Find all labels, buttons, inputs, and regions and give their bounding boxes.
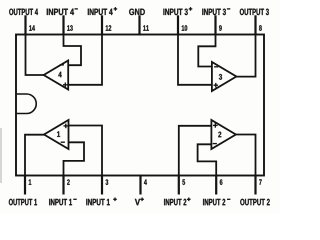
- pin 8 lead: [254, 15, 256, 35]
- op-amp U3 label 3: [219, 74, 222, 80]
- pin 7 number: [259, 179, 262, 184]
- pin 4 lead: [139, 175, 141, 195]
- wire pin6 to U2 inverting input: [198, 144, 217, 175]
- pin 13 lead: [62, 15, 64, 35]
- pin 1 number: [29, 179, 32, 184]
- pin 11 lead: [138, 15, 140, 35]
- wire pin10 to U3 non-inverting input: [178, 35, 212, 85]
- pin 5 number: [182, 179, 185, 184]
- pin 10 lead: [177, 15, 179, 35]
- pin 10 number: [182, 25, 188, 31]
- label INPUT 2 plus (pin 5): [164, 199, 186, 206]
- pin 4 number: [144, 179, 147, 184]
- label OUTPUT 4 (pin 14): [9, 9, 38, 16]
- op-amp U2 minus sign: [213, 143, 217, 145]
- wire pin5 to U2 non-inverting input: [179, 126, 212, 176]
- op-amp U4 label 4: [58, 72, 61, 78]
- pin 6 number: [220, 179, 223, 185]
- label INPUT 4 plus (pin 12): [88, 9, 113, 15]
- pin 9 number: [219, 25, 222, 31]
- op-amp U1 label 1: [57, 131, 60, 137]
- pin 12 lead: [101, 15, 103, 35]
- op-amp U4 (amplifier 4): [44, 61, 68, 90]
- pin 11 number: [143, 25, 149, 30]
- label GND (pin 11): [129, 9, 145, 16]
- op-amp U1 minus sign: [61, 141, 65, 143]
- op-amp U4 minus sign: [60, 64, 64, 66]
- op-amp U1 (amplifier 1): [44, 120, 69, 149]
- pin 12 number: [106, 25, 112, 30]
- label OUTPUT 2 (pin 7): [240, 199, 270, 206]
- label OUTPUT 3 (pin 8): [240, 9, 269, 16]
- label INPUT 4 minus (pin 13): [47, 9, 74, 15]
- notch (pin-1 index mark): [17, 94, 36, 114]
- op-amp U1 plus sign: [64, 125, 69, 127]
- label INPUT 1 minus (pin 2): [49, 199, 72, 205]
- pin 2 lead: [62, 175, 64, 195]
- pin 9 lead: [214, 15, 216, 35]
- scan artifact streak: [0, 128, 2, 183]
- label V plus (pin 4): [135, 199, 140, 205]
- label INPUT 2 minus (pin 6): [203, 199, 225, 206]
- wire U2 output to pin 7: [235, 135, 255, 176]
- pin 13 number: [67, 25, 73, 31]
- label INPUT 1 plus (pin 3): [86, 199, 110, 205]
- pin 5 lead: [178, 175, 180, 195]
- IC body outline: [16, 35, 264, 176]
- pin 7 lead: [254, 175, 256, 195]
- op-amp U2 (amplifier 2): [211, 120, 236, 149]
- pin 8 number: [259, 25, 262, 31]
- wire pin3 to U1 non-inverting input: [69, 126, 103, 176]
- wire U1 output to pin 1: [25, 135, 45, 176]
- pin 6 lead: [215, 175, 217, 195]
- op-amp U4 plus sign: [63, 84, 68, 86]
- op-amp U3 plus sign: [214, 84, 219, 86]
- label INPUT 3 plus (pin 10): [163, 9, 187, 16]
- wire pin14 into body: [25, 35, 27, 76]
- pin 3 lead: [101, 175, 103, 195]
- wire pin13 to U4 inverting input: [64, 35, 82, 66]
- label OUTPUT 1 (pin 1): [9, 199, 37, 206]
- op-amp U2 label 2: [218, 132, 221, 138]
- op-amp U3 minus sign: [214, 66, 218, 68]
- wire U3 output to pin 8: [236, 35, 256, 77]
- op-amp U3 (amplifier 3): [212, 62, 237, 91]
- wire pin2 to U1 inverting input: [64, 142, 85, 175]
- pin 2 number: [67, 179, 70, 184]
- wire U4 output to pin 14: [26, 74, 45, 76]
- label INPUT 3 minus (pin 9): [202, 9, 226, 16]
- pin 14 lead: [24, 15, 26, 35]
- pin 1 lead: [24, 175, 26, 195]
- op-amp U2 plus sign: [213, 124, 218, 126]
- wire pin9 to U3 inverting input: [198, 35, 215, 67]
- pin 14 number: [29, 25, 35, 30]
- pin 3 number: [106, 179, 109, 185]
- wire pin12 to U4 non-inverting input: [68, 35, 102, 85]
